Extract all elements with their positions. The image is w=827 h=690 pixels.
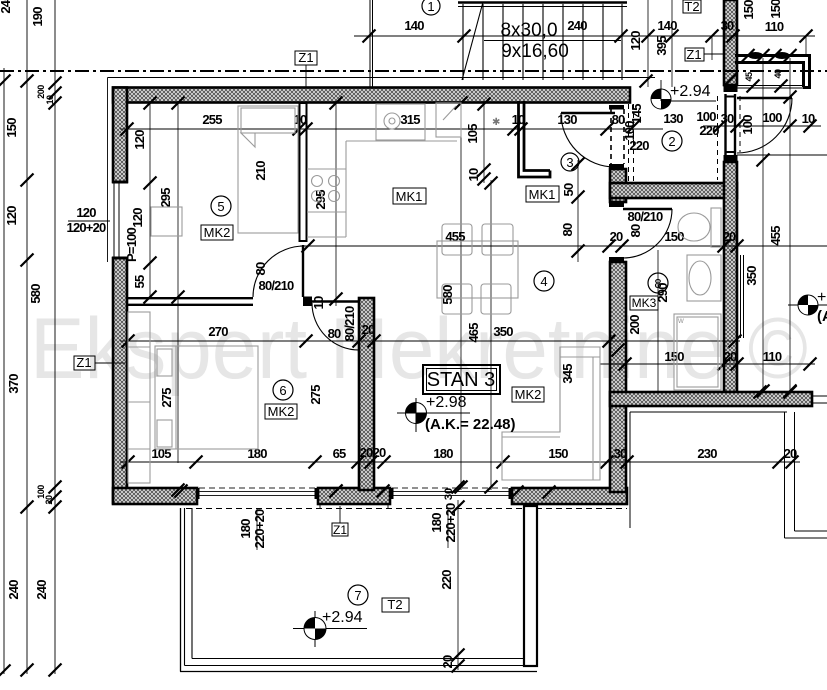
svg-text:9x16,60: 9x16,60 bbox=[501, 41, 569, 62]
svg-text:2: 2 bbox=[668, 134, 675, 149]
svg-text:10: 10 bbox=[466, 168, 481, 181]
svg-text:80: 80 bbox=[628, 224, 643, 237]
svg-text:240: 240 bbox=[0, 0, 13, 14]
svg-text:150: 150 bbox=[768, 0, 783, 19]
svg-text:✱: ✱ bbox=[492, 117, 500, 128]
svg-text:150: 150 bbox=[4, 118, 19, 138]
svg-text:Z1: Z1 bbox=[298, 50, 313, 65]
svg-text:455: 455 bbox=[445, 229, 465, 244]
svg-text:20: 20 bbox=[610, 229, 623, 244]
svg-text:180: 180 bbox=[433, 446, 453, 461]
svg-text:20: 20 bbox=[360, 445, 373, 460]
svg-text:345: 345 bbox=[560, 364, 575, 384]
svg-text:290: 290 bbox=[655, 283, 670, 303]
svg-text:295: 295 bbox=[158, 188, 173, 208]
svg-text:145: 145 bbox=[629, 104, 644, 124]
svg-text:100: 100 bbox=[740, 115, 755, 135]
svg-text:120: 120 bbox=[4, 206, 19, 226]
svg-text:105: 105 bbox=[151, 446, 171, 461]
svg-text:+2.98: +2.98 bbox=[426, 394, 467, 411]
svg-text:6: 6 bbox=[279, 383, 286, 398]
svg-text:220: 220 bbox=[629, 138, 649, 153]
svg-text:10: 10 bbox=[45, 95, 55, 105]
svg-text:MK1: MK1 bbox=[529, 187, 556, 202]
svg-text:315: 315 bbox=[400, 112, 420, 127]
svg-text:200: 200 bbox=[627, 315, 642, 335]
svg-text:150: 150 bbox=[548, 446, 568, 461]
svg-text:180: 180 bbox=[429, 513, 444, 533]
svg-text:Z1: Z1 bbox=[686, 47, 701, 62]
svg-text:270: 270 bbox=[208, 324, 228, 339]
svg-text:455: 455 bbox=[768, 226, 783, 246]
svg-text:80: 80 bbox=[560, 223, 575, 236]
svg-text:130: 130 bbox=[557, 112, 577, 127]
svg-text:10: 10 bbox=[802, 111, 815, 126]
svg-text:275: 275 bbox=[308, 385, 323, 405]
svg-text:50: 50 bbox=[561, 183, 576, 196]
svg-text:150: 150 bbox=[741, 0, 756, 20]
svg-text:Z1: Z1 bbox=[76, 355, 91, 370]
svg-text:580: 580 bbox=[28, 284, 43, 304]
svg-text:80: 80 bbox=[253, 262, 268, 275]
svg-text:P=100: P=100 bbox=[124, 227, 139, 262]
svg-text:80/210: 80/210 bbox=[259, 278, 295, 293]
svg-text:3: 3 bbox=[566, 155, 573, 170]
svg-text:275: 275 bbox=[159, 388, 174, 408]
svg-text:65: 65 bbox=[333, 446, 346, 461]
svg-text:(A.K.= 22.48): (A.K.= 22.48) bbox=[425, 416, 515, 433]
svg-text:210: 210 bbox=[253, 161, 268, 181]
svg-text:55: 55 bbox=[132, 275, 147, 288]
svg-text:240: 240 bbox=[34, 580, 49, 600]
svg-text:120: 120 bbox=[132, 130, 147, 150]
svg-text:5: 5 bbox=[217, 199, 224, 214]
svg-text:130: 130 bbox=[663, 111, 683, 126]
svg-text:110: 110 bbox=[763, 349, 782, 364]
svg-text:Ekspert Nekretnine ©: Ekspert Nekretnine © bbox=[30, 301, 808, 397]
svg-text:140: 140 bbox=[404, 18, 424, 33]
svg-text:30: 30 bbox=[721, 111, 734, 126]
svg-text:Z1: Z1 bbox=[333, 523, 347, 537]
svg-text:370: 370 bbox=[6, 374, 21, 394]
svg-text:395: 395 bbox=[654, 36, 669, 56]
svg-text:350: 350 bbox=[744, 266, 759, 286]
svg-text:20: 20 bbox=[724, 349, 737, 364]
svg-text:20: 20 bbox=[44, 495, 54, 505]
svg-text:30: 30 bbox=[443, 488, 455, 500]
svg-text:1: 1 bbox=[427, 0, 434, 14]
svg-text:180: 180 bbox=[247, 446, 267, 461]
svg-text:465: 465 bbox=[466, 323, 481, 343]
svg-text:+2.94: +2.94 bbox=[322, 609, 363, 626]
svg-text:190: 190 bbox=[30, 7, 45, 27]
svg-text:45: 45 bbox=[744, 72, 754, 82]
svg-text:255: 255 bbox=[202, 112, 222, 127]
svg-text:+2.: +2. bbox=[817, 289, 827, 306]
svg-text:20: 20 bbox=[440, 655, 455, 668]
svg-text:120: 120 bbox=[130, 208, 145, 228]
svg-text:350: 350 bbox=[493, 324, 513, 339]
svg-text:20: 20 bbox=[373, 445, 386, 460]
svg-text:T2: T2 bbox=[387, 597, 402, 612]
svg-text:220+20: 220+20 bbox=[443, 503, 458, 543]
svg-text:105: 105 bbox=[465, 124, 480, 144]
svg-text:10: 10 bbox=[294, 112, 307, 127]
svg-text:20: 20 bbox=[362, 322, 375, 337]
svg-text:(A: (A bbox=[817, 308, 827, 325]
svg-text:240: 240 bbox=[6, 580, 21, 600]
svg-text:T2: T2 bbox=[684, 0, 699, 14]
svg-text:240: 240 bbox=[567, 18, 587, 33]
svg-text:80/210: 80/210 bbox=[628, 209, 664, 224]
svg-text:w: w bbox=[677, 316, 684, 325]
svg-text:120+20: 120+20 bbox=[67, 220, 107, 235]
svg-text:220+20: 220+20 bbox=[252, 509, 267, 549]
svg-text:10: 10 bbox=[311, 296, 326, 309]
svg-text:80: 80 bbox=[328, 326, 341, 341]
svg-text:STAN 3: STAN 3 bbox=[427, 369, 496, 391]
svg-text:30: 30 bbox=[614, 446, 627, 461]
svg-text:10: 10 bbox=[512, 112, 525, 127]
svg-text:80/210: 80/210 bbox=[342, 306, 357, 342]
svg-text:110: 110 bbox=[765, 19, 784, 34]
svg-text:100: 100 bbox=[696, 109, 716, 124]
svg-text:40: 40 bbox=[773, 69, 783, 79]
svg-text:120: 120 bbox=[628, 31, 643, 51]
svg-text:220: 220 bbox=[699, 123, 719, 138]
svg-text:30: 30 bbox=[721, 18, 734, 33]
svg-text:20: 20 bbox=[723, 229, 736, 244]
svg-text:MK1: MK1 bbox=[396, 189, 423, 204]
svg-text:4: 4 bbox=[540, 274, 547, 289]
svg-text:MK2: MK2 bbox=[515, 387, 542, 402]
svg-text:7: 7 bbox=[354, 588, 361, 603]
svg-text:MK2: MK2 bbox=[204, 225, 231, 240]
svg-text:220: 220 bbox=[439, 570, 454, 590]
svg-text:+2.94: +2.94 bbox=[670, 83, 711, 100]
svg-text:180: 180 bbox=[238, 519, 253, 539]
svg-text:120: 120 bbox=[76, 205, 96, 220]
svg-text:230: 230 bbox=[697, 446, 717, 461]
svg-text:MK2: MK2 bbox=[268, 404, 295, 419]
svg-text:100: 100 bbox=[762, 110, 782, 125]
svg-text:140: 140 bbox=[657, 18, 677, 33]
svg-text:MK3: MK3 bbox=[632, 296, 657, 310]
svg-text:8x30,0: 8x30,0 bbox=[500, 20, 557, 41]
